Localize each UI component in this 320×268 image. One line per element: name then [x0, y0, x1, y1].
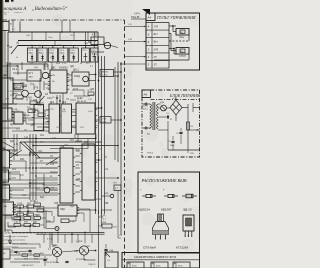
svg-text:1,5к: 1,5к: [52, 138, 56, 140]
svg-text:ДА1.1: ДА1.1: [73, 69, 80, 72]
svg-text:4,7Д: 4,7Д: [70, 221, 75, 223]
svg-text:И2Д: И2Д: [3, 106, 8, 108]
svg-text:КВ109Г: КВ109Г: [161, 208, 172, 212]
svg-text:КД521А: КД521А: [139, 208, 150, 212]
svg-text:2к: 2к: [50, 176, 52, 178]
svg-text:ТПП-2: ТПП-2: [147, 153, 154, 155]
svg-text:АГГ02-01: АГГ02-01: [77, 100, 87, 103]
svg-text:Пуск: Пуск: [179, 36, 185, 39]
svg-text:С2.1: С2.1: [12, 68, 18, 71]
svg-text:R40 412 437: R40 412 437: [22, 265, 34, 267]
svg-text:10к: 10к: [72, 57, 75, 59]
svg-text:УПЗ: УПЗ: [154, 27, 159, 29]
svg-text:ДД5: ДД5: [90, 89, 95, 91]
svg-text:ПУЛЬТ УПРАВЛЕНИЯ: ПУЛЬТ УПРАВЛЕНИЯ: [156, 16, 196, 20]
svg-text:лист 2: лист 2: [3, 12, 10, 14]
svg-text:СВД: СВД: [104, 193, 109, 195]
svg-text:ДД1: ДД1: [36, 215, 41, 217]
svg-text:100н: 100н: [48, 37, 53, 39]
svg-text:И7.1: И7.1: [29, 73, 35, 75]
svg-text:И10ЛЕ1: И10ЛЕ1: [59, 67, 69, 70]
svg-text:4 ВЗ: 4 ВЗ: [92, 35, 97, 37]
svg-text:С7Д: С7Д: [14, 222, 19, 224]
svg-text:ДД5: ДД5: [76, 179, 81, 181]
svg-text:АПЗ: АПЗ: [153, 48, 159, 51]
svg-text:1,5к: 1,5к: [14, 144, 18, 146]
svg-text:С2Д 4.1: С2Д 4.1: [88, 264, 96, 266]
svg-text:2к: 2к: [96, 125, 98, 127]
svg-text:2к: 2к: [44, 111, 46, 113]
svg-text:СТОП: СТОП: [179, 55, 186, 58]
svg-text:С2Д: С2Д: [28, 253, 33, 255]
svg-text:КТ3126А: КТ3126А: [176, 246, 188, 250]
svg-text:2П: 2П: [153, 57, 157, 59]
svg-text:100н: 100н: [88, 111, 93, 113]
svg-text:покоя. Элементы подбир.: покоя. Элементы подбир.: [2, 243, 28, 245]
svg-text:ПДЧ: ПДЧ: [60, 208, 65, 211]
svg-text:ЛА3: ЛА3: [20, 82, 25, 85]
svg-text:СП3-6аМ: СП3-6аМ: [143, 246, 156, 250]
svg-text:ДД1: ДД1: [15, 217, 20, 219]
svg-text:4 Зп: 4 Зп: [92, 54, 97, 56]
svg-text:7 ЛБ: 7 ЛБ: [102, 119, 107, 121]
svg-text:ДД1: ДД1: [70, 66, 75, 68]
svg-text:3П: 3П: [154, 65, 157, 67]
svg-text:100н: 100н: [96, 199, 102, 201]
svg-text:Х.РЧ: Х.РЧ: [134, 13, 140, 16]
svg-text:С17Д: С17Д: [17, 203, 23, 205]
svg-text:„Видеоводит-5“: „Видеоводит-5“: [32, 6, 68, 12]
svg-text:VД3: VД3: [10, 95, 15, 97]
svg-text:ПУВ: ПУВ: [102, 222, 107, 224]
svg-text:* Напряжение на выводах: * Напряжение на выводах: [2, 236, 29, 238]
svg-text:100н: 100н: [46, 221, 52, 223]
svg-text:47н: 47н: [52, 97, 55, 99]
svg-text:1,5к: 1,5к: [12, 151, 16, 153]
svg-text:100м: 100м: [170, 145, 175, 147]
svg-text:1,5к: 1,5к: [62, 63, 66, 65]
svg-text:10к: 10к: [30, 109, 34, 111]
svg-text:К155: К155: [30, 201, 36, 203]
svg-text:при регулировке.: при регулировке.: [2, 247, 19, 249]
svg-text:VД3: VД3: [70, 206, 75, 208]
svg-text:10к: 10к: [76, 151, 80, 153]
svg-text:ФД-25: ФД-25: [183, 208, 192, 212]
svg-text:АВ ЗВ: АВ ЗВ: [102, 71, 109, 74]
svg-text:Вкл': Вкл': [154, 34, 159, 36]
svg-text:ДД5: ДД5: [10, 124, 15, 126]
svg-text:МАРКИРОВКА МИКРОСХЕМ: МАРКИРОВКА МИКРОСХЕМ: [133, 255, 176, 259]
svg-text:VД3: VД3: [74, 251, 79, 253]
svg-text:ВД2: ВД2: [20, 159, 25, 161]
svg-text:ДК1: ДК1: [50, 102, 55, 104]
svg-text:РАСПОЛОЖЕНИЕ ВЫВ: РАСПОЛОЖЕНИЕ ВЫВ: [141, 178, 187, 183]
svg-text:К155: К155: [73, 89, 79, 91]
svg-text:Пьезо: Пьезо: [102, 75, 109, 77]
svg-text:ИКЛ: ИКЛ: [24, 259, 29, 261]
svg-text:А6: А6: [144, 93, 148, 97]
svg-text:А4: А4: [148, 16, 152, 20]
svg-text:Д+Е1: Д+Е1: [77, 98, 83, 100]
svg-text:И10Д: И10Д: [74, 76, 80, 78]
svg-text:77ДВ: 77ДВ: [2, 206, 8, 208]
svg-text:схема эл.: схема эл.: [14, 12, 23, 14]
svg-text:ДА4.1: ДА4.1: [2, 199, 9, 202]
svg-text:+5В: +5В: [104, 203, 109, 205]
svg-text:2к: 2к: [16, 57, 18, 59]
svg-text:7НГ: 7НГ: [93, 40, 98, 43]
svg-text:2к: 2к: [80, 63, 82, 65]
svg-text:ЛА3: ЛА3: [90, 94, 95, 97]
svg-text:ВД2: ВД2: [40, 197, 45, 199]
svg-text:4,7Д: 4,7Д: [16, 253, 21, 255]
svg-text:50Гц: 50Гц: [143, 109, 148, 111]
svg-text:10к: 10к: [42, 129, 45, 131]
svg-text:ВД2: ВД2: [10, 141, 15, 143]
svg-text:ЛА3: ЛА3: [38, 150, 43, 153]
svg-text:4 ПЛБ: 4 ПЛБ: [76, 241, 83, 243]
svg-text:литБ: литБ: [102, 121, 107, 123]
svg-text:VТ6: VТ6: [34, 88, 39, 90]
svg-text:АВ: АВ: [9, 46, 13, 49]
svg-text:приведено для режима: приведено для режима: [2, 240, 26, 242]
svg-text:ш: ш: [10, 23, 12, 26]
svg-text:Вкл': Вкл': [154, 42, 159, 44]
svg-text:К155: К155: [98, 217, 104, 219]
